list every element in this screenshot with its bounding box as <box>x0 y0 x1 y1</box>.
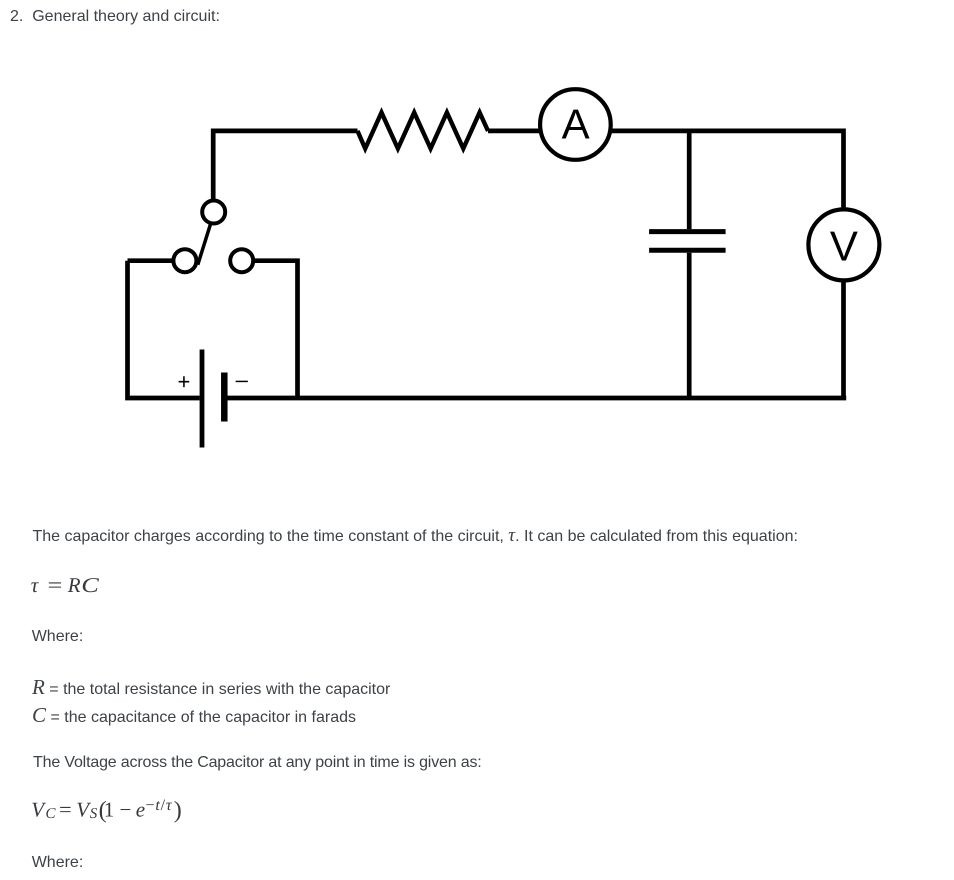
svg-text:V: V <box>76 797 91 821</box>
svg-text:=: = <box>59 797 72 821</box>
svg-text:(: ( <box>99 797 107 823</box>
wire: bottom rail right of battery <box>224 396 846 401</box>
switch SW1 left contact circle <box>173 249 196 272</box>
Where: (2) <box>32 851 84 875</box>
svg-text:A: A <box>562 100 590 147</box>
capacitor C: top lead <box>687 131 692 229</box>
paragraph 1 <box>33 525 798 549</box>
svg-text:R: R <box>67 573 81 597</box>
svg-text:C: C <box>46 806 57 822</box>
wire: resistor to right corner, down right side <box>488 131 844 398</box>
svg-text:−: − <box>120 797 132 821</box>
svg-text:1: 1 <box>104 797 115 821</box>
wire: switch right branch down to bottom rail <box>252 261 298 398</box>
paragraph 2 <box>33 751 482 775</box>
ammeter A (circle) <box>540 89 611 160</box>
capacitor C: plates <box>649 232 726 251</box>
svg-text:V: V <box>31 797 46 821</box>
svg-text:τ: τ <box>31 573 40 597</box>
svg-text:+: + <box>177 369 190 394</box>
wire: switch common up + top rail to right corner + right vertical <box>213 131 357 200</box>
svg-text:−t/τ: −t/τ <box>146 797 173 814</box>
switch SW1 right contact circle <box>230 249 253 272</box>
heading: 2. General theory and circuit: <box>10 5 220 29</box>
svg-text:S: S <box>90 806 98 822</box>
Where: (1) <box>32 625 84 649</box>
battery BT1 negative plate (short) <box>221 373 228 422</box>
svg-text:C: C <box>81 573 100 597</box>
svg-text:V: V <box>830 223 858 270</box>
svg-text:): ) <box>174 797 182 823</box>
voltmeter V (circle) <box>808 209 879 280</box>
switch SW1 lever <box>198 223 211 265</box>
resistor R (zigzag) <box>358 113 489 149</box>
battery BT1 positive plate (long) <box>200 350 205 448</box>
wire: bottom rail left of battery <box>128 261 200 398</box>
capacitor C: bottom lead <box>687 253 692 398</box>
circuit schematic SVG <box>0 0 954 520</box>
R and C definition lines <box>32 675 390 731</box>
svg-text:–: – <box>236 367 249 392</box>
svg-text:e: e <box>136 797 145 821</box>
svg-text:=: = <box>48 573 63 597</box>
switch SW1 common node circle <box>202 201 225 224</box>
